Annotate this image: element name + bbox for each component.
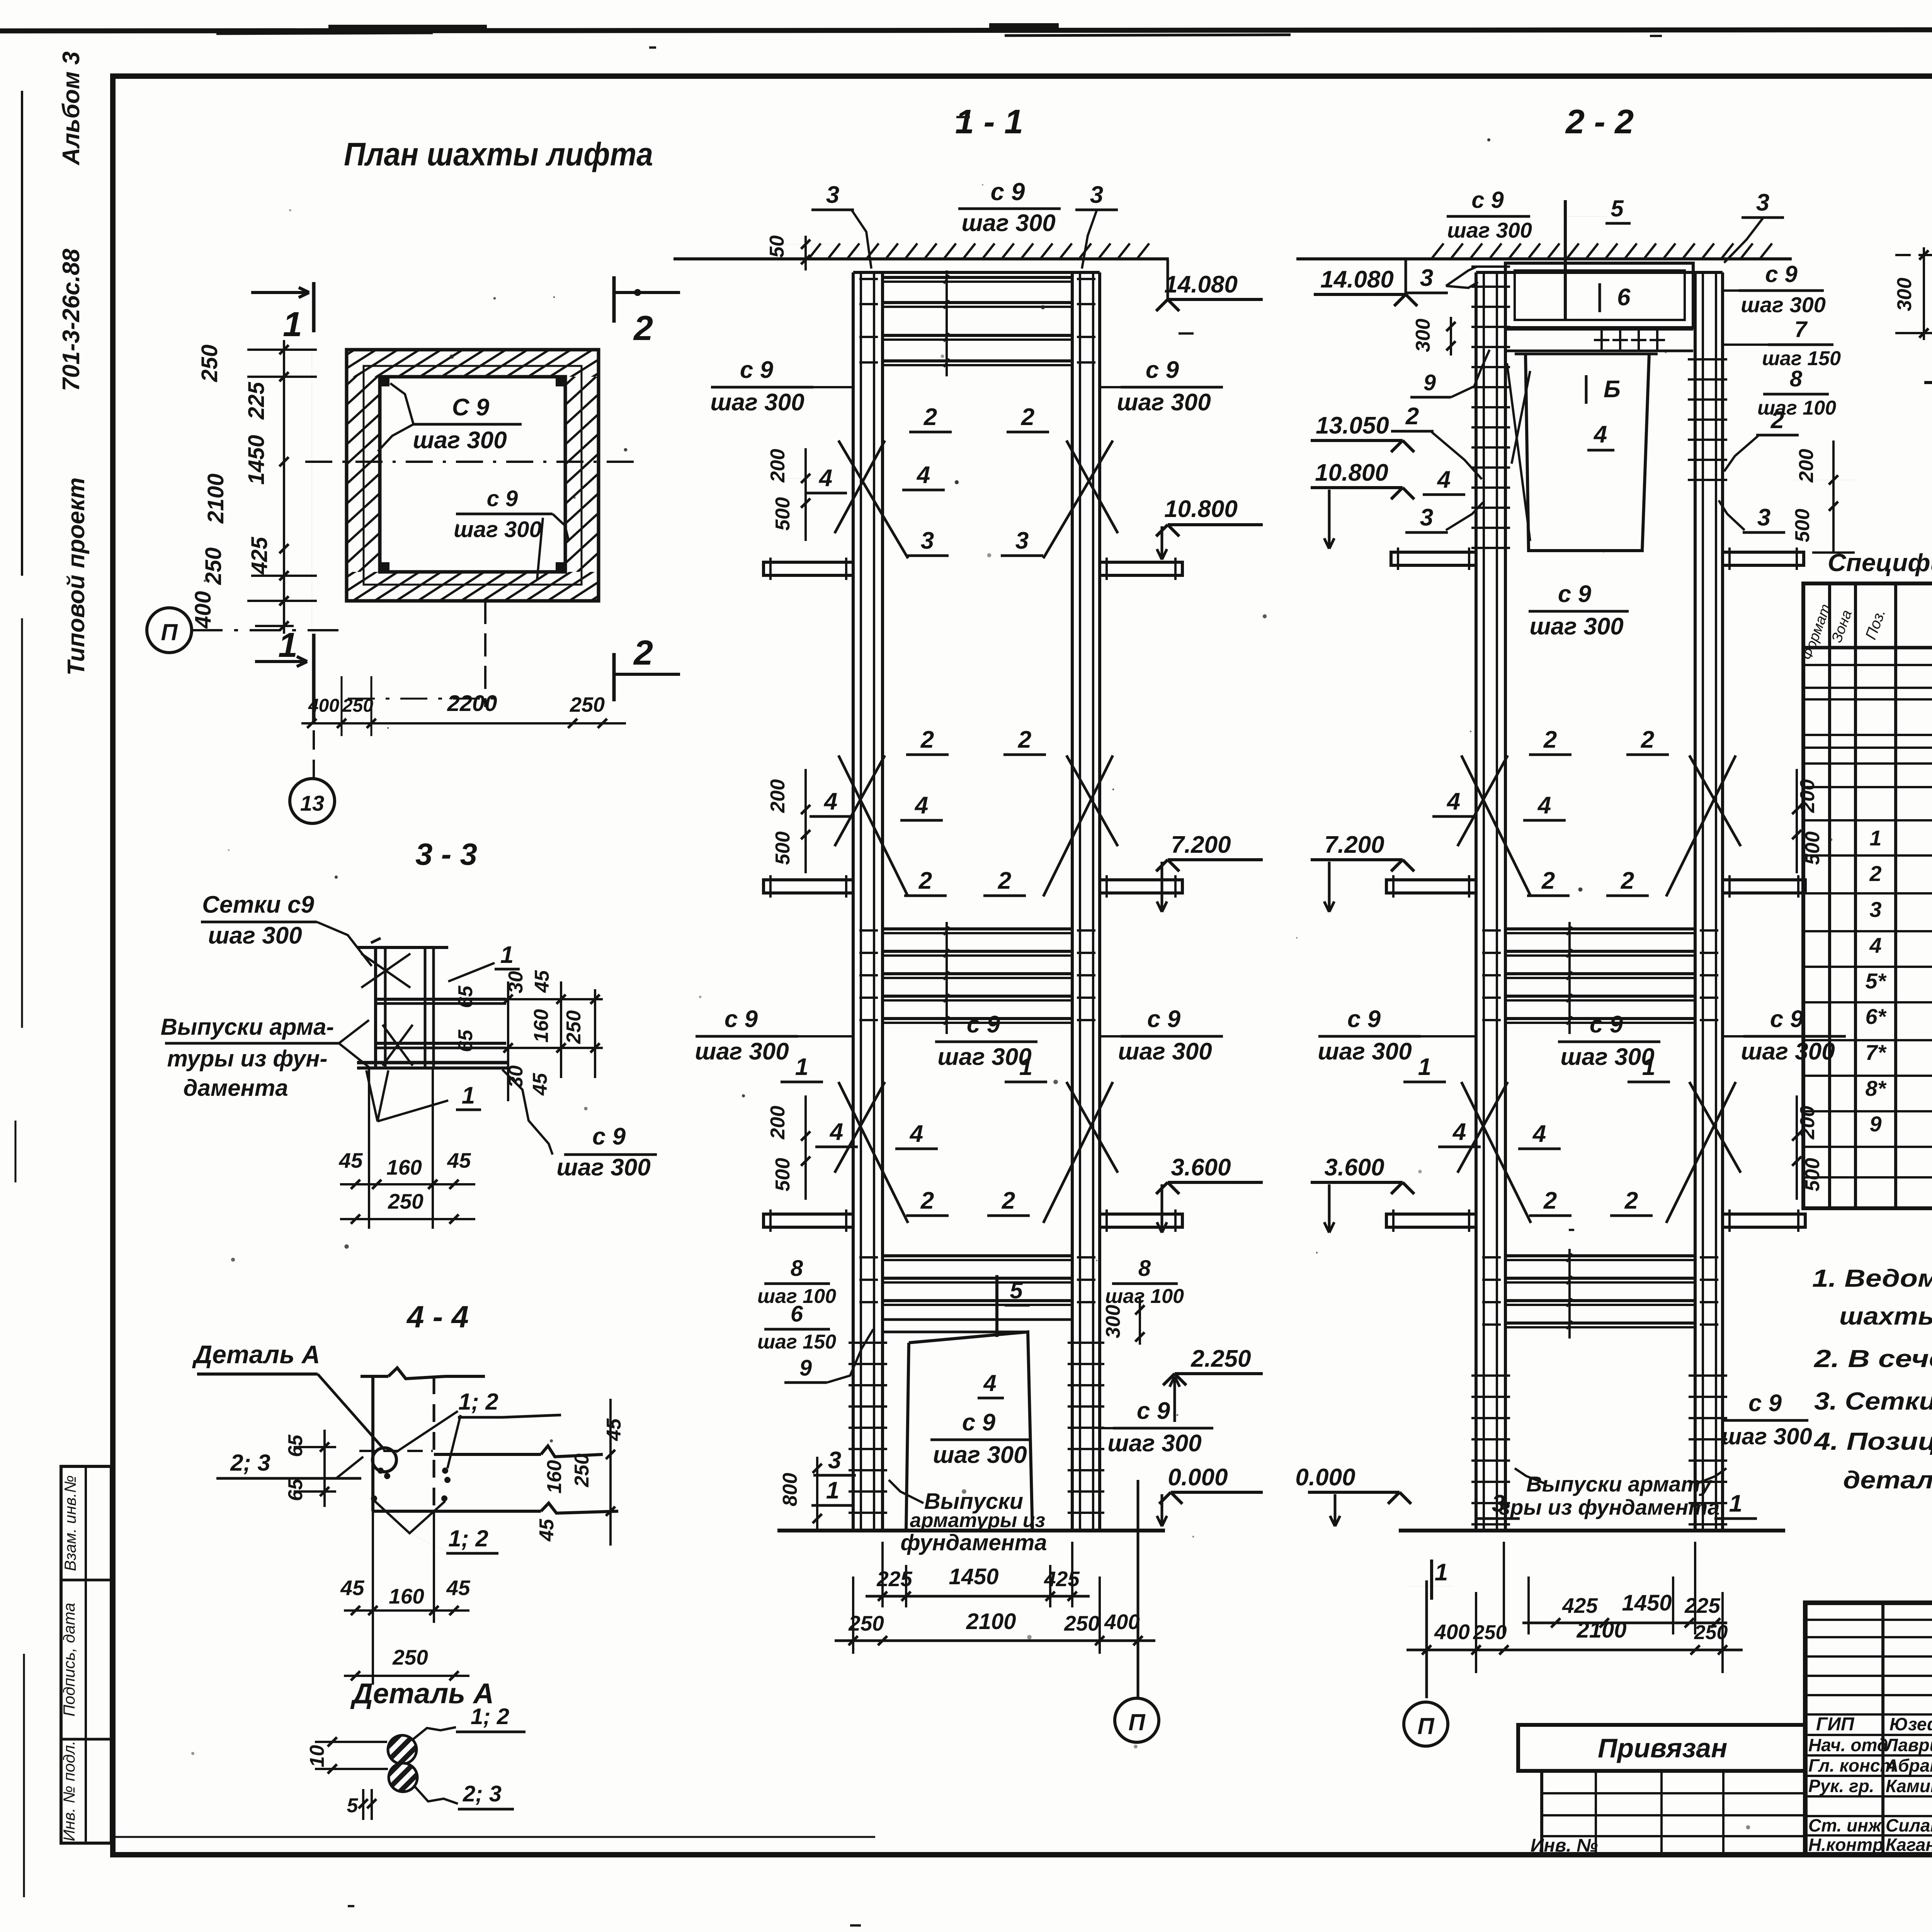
slab stub right 3.600 [1723, 1214, 1805, 1227]
section 1-1 right wall verticals [1071, 272, 1074, 1531]
svg-text:2: 2 [633, 634, 653, 672]
detail A: leader 2;3 [414, 1786, 458, 1804]
svg-text:250: 250 [563, 1010, 585, 1044]
svg-text:Б: Б [1604, 376, 1621, 403]
section 4-4: tie lines to label 1;2 upper [396, 1411, 458, 1452]
section 2-2 mesh rows mid2 [1505, 927, 1695, 930]
svg-text:с 9: с 9 [967, 1011, 1000, 1038]
slab stub left 10.800 [764, 562, 853, 575]
svg-text:6: 6 [791, 1301, 803, 1327]
plan: horizontal centerline [305, 461, 641, 463]
svg-text:2: 2 [1541, 867, 1555, 894]
slab stub right 3.600 [1100, 1214, 1182, 1227]
section 3-3: rebar 1 lower pair [376, 1042, 506, 1045]
svg-text:План шахты лифта: План шахты лифта [344, 136, 653, 172]
svg-text:500: 500 [772, 497, 794, 531]
svg-text:2: 2 [923, 404, 937, 430]
svg-text:с 9: с 9 [1770, 1006, 1804, 1032]
svg-text:4: 4 [823, 788, 837, 815]
svg-text:шаг 300: шаг 300 [1741, 293, 1826, 317]
svg-text:4: 4 [829, 1119, 843, 1145]
svg-text:4: 4 [983, 1370, 996, 1396]
section 3-3: leader arrows [339, 1020, 369, 1043]
svg-text:7.200: 7.200 [1324, 832, 1384, 858]
svg-text:2: 2 [633, 309, 653, 348]
svg-text:2: 2 [1624, 1187, 1638, 1214]
plan: outer wall contour [347, 350, 599, 601]
svg-text:1: 1 [1019, 1054, 1032, 1080]
svg-text:Взам. инв.№: Взам. инв.№ [61, 1475, 79, 1571]
svg-text:1; 2: 1; 2 [458, 1389, 498, 1415]
svg-text:Деталь А: Деталь А [192, 1340, 320, 1369]
section 1-1 mesh rows mid3 [883, 1254, 1072, 1257]
svg-text:13.050: 13.050 [1316, 412, 1389, 439]
svg-text:П: П [1417, 1713, 1435, 1739]
svg-text:6*: 6* [1866, 1004, 1887, 1029]
section 4-4: bottom dim 250 [344, 1675, 469, 1677]
slab stub left 7.200 [764, 880, 853, 893]
section 1-1 pit wall rungs [849, 1342, 887, 1344]
section 4-4: bottom dim chain 45 160 45 [372, 1511, 374, 1685]
slab stub right door sill [1723, 552, 1804, 565]
svg-text:шаг 100: шаг 100 [1757, 397, 1836, 419]
specification header row line [1803, 646, 1932, 650]
svg-text:225: 225 [876, 1567, 913, 1591]
svg-text:4: 4 [1593, 421, 1607, 448]
svg-text:Типовой проект: Типовой проект [63, 478, 90, 676]
svg-text:1; 2: 1; 2 [471, 1704, 509, 1729]
svg-text:шаг 300: шаг 300 [1560, 1044, 1654, 1070]
svg-text:160: 160 [530, 1009, 553, 1043]
svg-text:зры из фундамента: зры из фундамента [1499, 1495, 1720, 1519]
detail A: hatched bar circle lower [389, 1763, 417, 1792]
section 1-1 X-group C left wall [838, 1082, 908, 1223]
svg-text:шаг 300: шаг 300 [1117, 389, 1211, 416]
section 2-2 level 10.800 left [1391, 488, 1403, 499]
svg-text:шаг 300: шаг 300 [1118, 1038, 1212, 1065]
section 3-3: top edge [357, 946, 448, 949]
svg-text:с 9: с 9 [592, 1123, 626, 1150]
left scan edge line [21, 91, 23, 576]
slab stub left door sill [1391, 552, 1476, 565]
section 1-1 pit: lintel lines [883, 1331, 1028, 1333]
svg-text:с 9: с 9 [740, 357, 774, 383]
svg-text:250: 250 [1473, 1621, 1507, 1644]
svg-text:Выпуски армату: Выпуски армату [1526, 1472, 1713, 1496]
section 3-3: bottom bars [357, 1061, 508, 1065]
section 2-2 cross hatch marks on band [1600, 329, 1603, 351]
svg-text:с 9: с 9 [487, 486, 518, 511]
svg-text:4: 4 [1446, 788, 1460, 815]
svg-text:45: 45 [536, 1519, 558, 1542]
svg-text:300: 300 [1893, 278, 1916, 311]
svg-text:4: 4 [916, 462, 930, 488]
svg-text:с 9: с 9 [1347, 1006, 1381, 1032]
svg-text:2 - 2: 2 - 2 [1565, 102, 1634, 141]
svg-text:1 - 1: 1 - 1 [955, 102, 1023, 141]
svg-text:2: 2 [998, 867, 1011, 894]
svg-text:1: 1 [283, 305, 302, 344]
svg-text:0.000: 0.000 [1295, 1464, 1355, 1491]
detail A: dim 5 [362, 1789, 364, 1820]
svg-text:250: 250 [388, 1189, 423, 1213]
top edge line of sheet [0, 29, 1932, 31]
svg-text:2: 2 [920, 726, 934, 753]
section 1-1 level 0.000 [1159, 1492, 1171, 1504]
section 1-1 X-group A left wall [838, 440, 908, 558]
svg-text:400: 400 [1104, 1610, 1140, 1634]
svg-text:3.600: 3.600 [1324, 1154, 1384, 1181]
svg-text:шаг 150: шаг 150 [757, 1331, 836, 1353]
svg-text:с 9: с 9 [1137, 1398, 1170, 1424]
svg-text:шаг 300: шаг 300 [454, 517, 542, 542]
svg-text:Гл. конст: Гл. конст [1808, 1755, 1896, 1776]
section 1-1 level 10.800 right [1156, 525, 1168, 536]
plan section line 1 (top) [312, 282, 316, 332]
svg-text:1450: 1450 [1622, 1590, 1672, 1616]
svg-text:Привязан: Привязан [1598, 1733, 1727, 1763]
svg-text:шаг 300: шаг 300 [710, 389, 804, 416]
section 2-2 level 13.050 left [1391, 440, 1403, 452]
svg-text:шаг 300: шаг 300 [933, 1442, 1027, 1468]
section 2-2 X-group B left wall [1461, 755, 1531, 896]
section 2-2 level 14.080 left [1405, 258, 1407, 294]
svg-text:2100: 2100 [966, 1609, 1016, 1634]
svg-text:с 9: с 9 [1558, 581, 1592, 607]
svg-text:Спецификация на армирование ки: Спецификация на армирование кирпичных ст… [1828, 549, 1932, 577]
section 3-3: right dim ticks [479, 998, 603, 1000]
svg-text:1: 1 [278, 626, 298, 665]
svg-text:Нач. отд: Нач. отд [1808, 1735, 1888, 1755]
plan section line 2 (top) [612, 276, 616, 323]
svg-text:200: 200 [1795, 449, 1818, 483]
section 4-4: wall right dashed edge [433, 1376, 435, 1511]
svg-text:13: 13 [300, 791, 324, 815]
svg-text:425: 425 [1044, 1567, 1080, 1591]
section 2-2 label 6 in lintel [1599, 283, 1601, 312]
svg-text:10: 10 [306, 1745, 328, 1767]
svg-text:160: 160 [543, 1460, 566, 1494]
svg-text:65: 65 [284, 1434, 307, 1457]
svg-text:3. Сетки с 9 укладывать в проц: 3. Сетки с 9 укладывать в процессе кладк… [1814, 1387, 1932, 1415]
svg-text:с 9: с 9 [991, 178, 1025, 206]
plan: vertical axis line below [484, 601, 486, 707]
title block signature row lines [1805, 1713, 1932, 1716]
slab stub right 7.200 [1723, 880, 1805, 893]
svg-text:4: 4 [818, 465, 832, 492]
section 3-3: lower V tie [366, 1070, 388, 1121]
svg-text:4: 4 [1452, 1119, 1466, 1145]
svg-text:туры из фун-: туры из фун- [167, 1046, 328, 1071]
section 3-3: wall verticals [374, 947, 377, 1068]
section 2-2 left wall verticals [1475, 272, 1478, 1531]
svg-text:П: П [161, 619, 178, 645]
section 2-2 X-group C left wall [1461, 1082, 1531, 1223]
svg-text:2: 2 [1002, 1187, 1015, 1214]
svg-text:Рук. гр.: Рук. гр. [1808, 1776, 1874, 1796]
plan: axis circle П [147, 608, 192, 653]
svg-text:425: 425 [247, 537, 272, 575]
svg-text:8: 8 [1138, 1256, 1151, 1281]
svg-text:6: 6 [1617, 284, 1631, 311]
section 1-1 bottom dim chain 250 2100 250 400 [852, 1577, 854, 1654]
section 2-2 door labels Б and 4 [1585, 375, 1588, 404]
svg-text:400: 400 [1434, 1620, 1470, 1644]
section 2-2 door opening [1526, 354, 1649, 551]
svg-text:шаг 300: шаг 300 [1318, 1038, 1412, 1065]
svg-text:250: 250 [1694, 1621, 1728, 1644]
specification row lines [1803, 664, 1932, 666]
svg-text:1: 1 [1642, 1054, 1655, 1080]
section 4-4: wall left edge [371, 1376, 374, 1511]
svg-text:1: 1 [795, 1054, 808, 1080]
section 5-5 dim 300 left [1923, 247, 1925, 340]
section 4-4: right dims 45 160 250 45 [609, 1399, 612, 1546]
svg-text:3: 3 [828, 1447, 841, 1474]
svg-text:1450: 1450 [244, 435, 269, 485]
section 1-1 left wall verticals [852, 272, 855, 1531]
svg-text:250: 250 [1064, 1611, 1100, 1635]
svg-text:5: 5 [1611, 196, 1624, 221]
svg-text:Выпуски арма-: Выпуски арма- [161, 1014, 334, 1040]
svg-text:2: 2 [1543, 726, 1557, 753]
svg-text:2: 2 [1869, 861, 1881, 886]
slab stub left 7.200 [1386, 880, 1476, 893]
svg-text:225: 225 [1684, 1594, 1721, 1617]
svg-text:45: 45 [446, 1576, 471, 1600]
svg-text:3: 3 [921, 527, 934, 554]
plan: axis circle 13 [290, 779, 335, 823]
svg-text:200: 200 [767, 449, 789, 483]
svg-text:65: 65 [454, 1029, 477, 1052]
svg-text:200: 200 [767, 1106, 789, 1140]
section 1-1 top mesh bars rows [883, 276, 1072, 279]
title block outer frame [1805, 1603, 1932, 1855]
svg-text:4: 4 [914, 792, 928, 819]
svg-text:225: 225 [244, 382, 269, 420]
svg-text:2: 2 [1405, 403, 1419, 430]
svg-text:с 9: с 9 [1765, 261, 1798, 287]
svg-text:2: 2 [1021, 404, 1034, 430]
plan inner dim line [311, 350, 312, 634]
svg-text:2: 2 [1543, 1187, 1557, 1214]
svg-text:с 9: с 9 [1146, 357, 1179, 383]
svg-text:4: 4 [1532, 1121, 1546, 1147]
section 3-3: bottom dim lines [368, 1068, 370, 1229]
svg-text:500: 500 [772, 1158, 794, 1192]
svg-text:П: П [1128, 1709, 1146, 1735]
scan noise [940, 354, 944, 358]
svg-text:4: 4 [1537, 792, 1551, 819]
svg-text:160: 160 [386, 1155, 422, 1179]
svg-text:1: 1 [826, 1477, 839, 1504]
section 1-1 mesh rows mid2 [883, 927, 1072, 930]
svg-text:арматуры из: арматуры из [910, 1509, 1045, 1532]
section 4-4: bar dots [378, 1468, 384, 1474]
svg-text:2.250: 2.250 [1190, 1345, 1251, 1372]
svg-text:фундамента: фундамента [900, 1530, 1047, 1555]
section 1-1 X-group C right wall [1043, 1082, 1113, 1223]
svg-text:10.800: 10.800 [1164, 496, 1238, 522]
title block vertical lines left part [1881, 1603, 1884, 1855]
svg-text:9: 9 [799, 1355, 812, 1381]
svg-text:1: 1 [462, 1082, 475, 1109]
svg-text:Инв. №: Инв. № [1531, 1835, 1598, 1856]
svg-text:400: 400 [190, 591, 216, 629]
svg-text:3: 3 [826, 182, 839, 208]
section 4-4: bar circle [372, 1448, 396, 1472]
section 1-1 X-group A right wall [1043, 440, 1113, 558]
svg-text:2100: 2100 [203, 473, 228, 524]
svg-text:4: 4 [1437, 466, 1451, 493]
svg-text:7*: 7* [1866, 1040, 1887, 1065]
svg-text:2100: 2100 [1576, 1617, 1626, 1643]
svg-text:1. Ведомость расхода стали на: 1. Ведомость расхода стали на армировани… [1812, 1264, 1932, 1292]
section 1-1 X-group B left wall [838, 755, 908, 896]
detail A: leader 1;2 [413, 1727, 456, 1740]
section 2-2 lintel box [1505, 263, 1693, 328]
svg-text:шаг 300: шаг 300 [695, 1038, 789, 1065]
privyazan grid below [1542, 1771, 1805, 1855]
section 1-1 pit: opening contour [909, 1332, 1032, 1531]
svg-text:шаг 300: шаг 300 [937, 1044, 1031, 1070]
svg-text:Лавриненко: Лавриненко [1884, 1735, 1932, 1755]
svg-text:2: 2 [918, 867, 932, 894]
svg-text:45: 45 [338, 1148, 363, 1172]
svg-text:1; 2: 1; 2 [448, 1526, 488, 1551]
slab stub right 10.800 [1100, 562, 1182, 575]
svg-text:500: 500 [772, 832, 794, 865]
svg-text:шаг 300: шаг 300 [556, 1154, 650, 1181]
svg-text:2: 2 [1621, 867, 1634, 894]
section 2-2 X-group C right wall [1666, 1082, 1736, 1223]
svg-text:шаг 300: шаг 300 [961, 210, 1055, 236]
svg-text:Юзефович: Юзефович [1889, 1714, 1932, 1734]
svg-text:45: 45 [529, 1073, 551, 1096]
svg-text:300: 300 [1102, 1305, 1124, 1338]
svg-text:Сетки с9: Сетки с9 [202, 891, 314, 918]
title block thin top rows [1805, 1619, 1932, 1621]
svg-text:45: 45 [531, 970, 553, 993]
section 1-1 bottom dim chain 225 1450 425 [881, 1542, 884, 1607]
slab stub right 7.200 [1100, 880, 1182, 893]
plan: corner anchor dots [379, 376, 389, 386]
svg-text:2: 2 [920, 1187, 934, 1214]
svg-text:200: 200 [767, 779, 789, 813]
svg-text:Абрамовский: Абрамовский [1885, 1755, 1932, 1776]
section 4-4: wall faces extending right [434, 1453, 541, 1456]
plan: inner wall contour [380, 377, 565, 572]
svg-text:шаг 300: шаг 300 [1107, 1430, 1201, 1457]
svg-text:250: 250 [201, 548, 226, 585]
section 2-2 left wall diagonal tie [1507, 363, 1530, 541]
svg-text:8*: 8* [1866, 1076, 1887, 1100]
svg-text:3: 3 [1757, 504, 1770, 531]
section 2-2 bottom section mark 1 [1430, 1560, 1433, 1600]
svg-text:с 9: с 9 [1147, 1006, 1181, 1032]
detail A: dim lines 10 [315, 1741, 387, 1743]
svg-text:Инв. № подл.: Инв. № подл. [60, 1741, 78, 1842]
svg-text:3: 3 [1015, 527, 1029, 554]
section 3-3: rebar 1 upper pair [376, 998, 506, 1001]
section 2-2 level 3.600 left [1391, 1182, 1403, 1194]
svg-text:65: 65 [284, 1478, 307, 1501]
svg-text:1: 1 [500, 942, 514, 968]
svg-text:14.080: 14.080 [1320, 266, 1394, 293]
section 1-1 axis circle П [1115, 1698, 1159, 1742]
svg-text:деталей на данном листе.: деталей на данном листе. [1843, 1466, 1932, 1494]
svg-text:1: 1 [1418, 1054, 1431, 1080]
svg-text:Н.контр: Н.контр [1808, 1835, 1883, 1855]
svg-text:300: 300 [1412, 319, 1434, 352]
svg-text:шаг 300: шаг 300 [1447, 218, 1532, 242]
slab stub left 3.600 [764, 1214, 853, 1227]
svg-text:4: 4 [1869, 933, 1881, 957]
section 2-2 wall ladder rungs top [1471, 265, 1510, 268]
svg-text:2: 2 [1018, 726, 1031, 753]
section 2-2 slab band under lintel [1505, 328, 1693, 331]
svg-text:С 9: С 9 [452, 394, 490, 421]
svg-text:3: 3 [1420, 504, 1433, 531]
svg-text:3.600: 3.600 [1171, 1154, 1231, 1181]
svg-text:дамента: дамента [183, 1075, 288, 1101]
svg-text:Ст. инж: Ст. инж [1808, 1815, 1882, 1835]
svg-text:45: 45 [447, 1148, 471, 1172]
svg-text:800: 800 [779, 1473, 801, 1507]
faint line above bottom frame [113, 1836, 875, 1838]
svg-text:45: 45 [340, 1576, 365, 1600]
svg-text:5*: 5* [1866, 969, 1887, 993]
section 1-1 wall top edge [853, 271, 1100, 274]
svg-text:250: 250 [570, 693, 605, 716]
section 3-3: leader to mesh [317, 922, 372, 966]
svg-text:2. В сечении 4-4 сетки с 9 усл: 2. В сечении 4-4 сетки с 9 условно не по… [1814, 1345, 1932, 1372]
section 2-2 bottom dim chain 425 1450 225 [1503, 1542, 1505, 1634]
plan bottom dimension chain [301, 722, 626, 724]
svg-text:с 9: с 9 [724, 1006, 758, 1032]
svg-text:с 9: с 9 [1471, 187, 1504, 213]
svg-text:500: 500 [1791, 509, 1814, 543]
section 2-2 right wall verticals [1694, 272, 1697, 1531]
sidebar stamp table [61, 1466, 111, 1843]
svg-text:шаг 300: шаг 300 [1721, 1423, 1812, 1449]
section 1-1 X-group B right wall [1043, 755, 1113, 896]
svg-text:2: 2 [1770, 407, 1784, 434]
plan: bottom axis dash line [348, 698, 502, 700]
section 3-3: cross ties lower [383, 1025, 413, 1066]
svg-text:шаг 300: шаг 300 [1529, 613, 1623, 640]
svg-text:шаг 100: шаг 100 [1105, 1285, 1184, 1308]
svg-text:250: 250 [571, 1454, 593, 1488]
svg-text:шаг 300: шаг 300 [1741, 1038, 1835, 1065]
svg-text:250: 250 [392, 1645, 428, 1669]
plan section line 1 (bottom) [312, 634, 316, 723]
svg-text:3: 3 [1869, 897, 1881, 922]
svg-text:1: 1 [1729, 1490, 1742, 1517]
section 1-1 level 3.600 right [1156, 1182, 1168, 1194]
svg-text:1: 1 [1435, 1559, 1448, 1586]
svg-text:250: 250 [197, 345, 222, 383]
specification table frame [1803, 583, 1932, 1208]
svg-text:65: 65 [454, 985, 477, 1008]
svg-text:ГИП: ГИП [1816, 1714, 1855, 1735]
svg-text:2; 3: 2; 3 [463, 1781, 502, 1806]
svg-text:шаг 300: шаг 300 [208, 922, 302, 949]
section 2-2 X-group B right wall [1666, 755, 1736, 896]
svg-text:2200: 2200 [447, 691, 497, 716]
svg-text:3 - 3: 3 - 3 [415, 837, 477, 871]
svg-text:250: 250 [342, 696, 373, 716]
